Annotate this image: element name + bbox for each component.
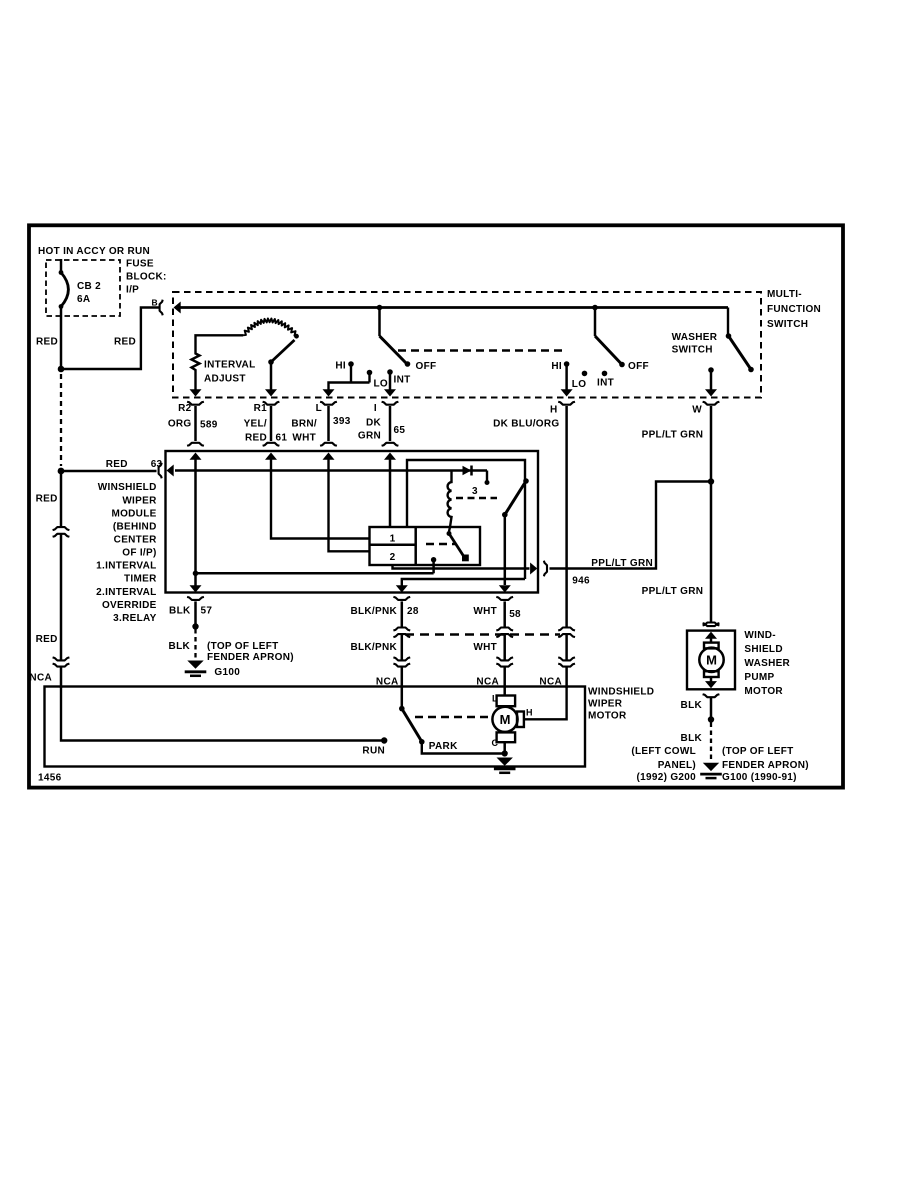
splice node BLK bbox=[192, 623, 198, 629]
wire BLK washer pump bbox=[710, 698, 713, 717]
wire R2 output arrow bbox=[190, 389, 202, 396]
svg-text:PUMP: PUMP bbox=[744, 672, 774, 683]
svg-text:WIPER: WIPER bbox=[122, 495, 157, 506]
wire BLK/PNK 28 segment bbox=[401, 601, 404, 627]
wire break symbol RED bbox=[53, 527, 70, 530]
svg-text:1: 1 bbox=[390, 534, 396, 545]
node on bus for wiper switch pole 1 bbox=[377, 305, 383, 311]
svg-text:DK BLU/ORG: DK BLU/ORG bbox=[493, 419, 559, 430]
svg-text:FUSE: FUSE bbox=[126, 259, 154, 270]
wire WHT into motor box bbox=[503, 667, 506, 688]
wire 946 output internal bbox=[393, 564, 530, 569]
park switch blade bbox=[402, 709, 421, 740]
node RED 63 junction bbox=[58, 468, 65, 475]
svg-text:WINDSHIELD: WINDSHIELD bbox=[588, 687, 654, 698]
svg-text:R1: R1 bbox=[254, 403, 268, 414]
ground G100 left bbox=[187, 661, 203, 669]
connector NCA BLK/PNK at motor bbox=[393, 657, 410, 660]
wire R1 internal to timer pin bbox=[271, 455, 370, 539]
svg-text:WIPER: WIPER bbox=[588, 699, 623, 710]
contact INT pole 1 bbox=[387, 369, 393, 375]
connector RED 63 at module bbox=[159, 463, 162, 479]
ground at wiper motor bbox=[497, 758, 513, 766]
svg-text:3: 3 bbox=[472, 486, 478, 497]
wire BLK dashed to grounds bbox=[710, 723, 712, 762]
inline connector washer pump bbox=[703, 623, 720, 626]
wire R2 return bus internal bbox=[193, 571, 199, 577]
node washer feed junction bbox=[708, 478, 714, 484]
contact HI pole 2 bbox=[564, 361, 570, 367]
connector BLK 57 below module bbox=[187, 597, 204, 600]
rheostat element interval adjust bbox=[243, 319, 298, 337]
svg-text:(1992) G200: (1992) G200 bbox=[637, 772, 697, 783]
wire DK BLU/ORG lower segment bbox=[565, 634, 568, 661]
timer contact dashed link bbox=[426, 543, 455, 545]
wire RED 63 to module bbox=[61, 470, 157, 473]
ground G100 G200 at washer pump bbox=[703, 763, 719, 771]
svg-text:L: L bbox=[316, 403, 322, 414]
svg-text:28: 28 bbox=[407, 606, 419, 617]
timer switch blade bbox=[447, 531, 469, 561]
washer switch feed wire bbox=[727, 308, 729, 335]
contact LO pole 2 bbox=[582, 371, 588, 377]
wire DK GRN 65 circuit I bbox=[389, 406, 392, 441]
wire WHT lower segment bbox=[503, 634, 506, 661]
wire RED to NCA connector bbox=[60, 533, 63, 661]
svg-text:SHIELD: SHIELD bbox=[744, 644, 782, 655]
relay mechanical link dashed bbox=[456, 497, 497, 499]
wire relay contact to BLK/PNK output bbox=[402, 579, 525, 586]
svg-text:G100 (1990-91): G100 (1990-91) bbox=[722, 772, 797, 783]
inline connector BLK/PNK at C100 bbox=[393, 628, 410, 631]
connector NCA H at motor bbox=[558, 657, 575, 660]
svg-text:RED: RED bbox=[36, 337, 58, 348]
park switch pivot wire bbox=[401, 687, 404, 709]
svg-text:BLK: BLK bbox=[169, 641, 191, 652]
inline connector WHT at C100 bbox=[496, 628, 513, 631]
wire BLK/PNK into motor box bbox=[401, 667, 404, 688]
svg-text:(TOP OF LEFT: (TOP OF LEFT bbox=[722, 746, 794, 757]
contact W washer switch bbox=[708, 367, 714, 373]
svg-text:B: B bbox=[152, 298, 158, 308]
svg-text:WHT: WHT bbox=[473, 606, 497, 617]
svg-text:BLK: BLK bbox=[169, 606, 191, 617]
wire INT contact to I output bbox=[389, 372, 392, 390]
wire WHT internal from relay common bbox=[504, 515, 507, 585]
windshield wiper motor box bbox=[45, 687, 586, 767]
connector L at module bbox=[320, 443, 337, 446]
svg-text:CENTER: CENTER bbox=[114, 534, 157, 545]
timer contact node to R2 return bbox=[431, 557, 436, 562]
svg-text:1.INTERVAL: 1.INTERVAL bbox=[96, 561, 156, 572]
svg-text:BLOCK:: BLOCK: bbox=[126, 272, 167, 283]
svg-text:HI: HI bbox=[335, 361, 346, 372]
svg-text:RUN: RUN bbox=[362, 746, 385, 757]
svg-text:OFF: OFF bbox=[628, 361, 649, 372]
diode in module bbox=[463, 466, 472, 476]
wiper motor M armature bbox=[492, 687, 524, 743]
multi-function switch dashed box bbox=[173, 292, 761, 398]
svg-text:FENDER APRON): FENDER APRON) bbox=[722, 760, 809, 771]
svg-text:FENDER APRON): FENDER APRON) bbox=[207, 652, 294, 663]
connector BLK/PNK 28 below module bbox=[393, 597, 410, 600]
svg-text:BRN/: BRN/ bbox=[291, 419, 317, 430]
connector WHT 58 below module bbox=[496, 597, 513, 600]
module input arrow R2 bbox=[190, 453, 202, 460]
svg-text:SWITCH: SWITCH bbox=[672, 345, 713, 356]
rheostat wiper arm bbox=[271, 340, 295, 362]
svg-text:ADJUST: ADJUST bbox=[204, 374, 246, 385]
module output arrow BLK bbox=[194, 573, 197, 586]
wire RED dashed from junction bbox=[60, 374, 62, 466]
park mechanical link dashed bbox=[415, 716, 492, 718]
wire WHT 58 segment bbox=[503, 601, 506, 627]
svg-text:LO: LO bbox=[572, 379, 587, 390]
connector I at module bbox=[382, 443, 399, 446]
wire YEL/RED 61 circuit R1 bbox=[270, 406, 273, 441]
svg-text:RED: RED bbox=[36, 494, 58, 505]
wire RUN inside motor bbox=[61, 687, 382, 741]
svg-text:W: W bbox=[692, 405, 702, 416]
circuit breaker CB2 6A bbox=[59, 259, 69, 369]
svg-text:(BEHIND: (BEHIND bbox=[113, 521, 157, 532]
wire BLK dashed to G100 bbox=[194, 629, 196, 660]
feed bus wire inside multi-function switch bbox=[175, 306, 728, 309]
svg-text:BLK: BLK bbox=[681, 700, 703, 711]
svg-text:INT: INT bbox=[597, 378, 614, 389]
svg-text:1456: 1456 bbox=[38, 773, 62, 784]
svg-text:FUNCTION: FUNCTION bbox=[767, 304, 821, 315]
label WINSHIELD WIPER MODULE notes bbox=[96, 482, 157, 624]
svg-text:WINSHIELD: WINSHIELD bbox=[98, 482, 157, 493]
svg-text:HOT IN ACCY OR RUN: HOT IN ACCY OR RUN bbox=[38, 246, 150, 257]
connector NCA WHT at motor bbox=[496, 657, 513, 660]
wire HI-LO contacts to L output bbox=[329, 364, 370, 390]
svg-text:57: 57 bbox=[201, 606, 213, 617]
svg-text:TIMER: TIMER bbox=[124, 574, 157, 585]
svg-text:RED: RED bbox=[106, 459, 128, 470]
svg-text:ORG: ORG bbox=[168, 419, 192, 430]
svg-text:BLK/PNK: BLK/PNK bbox=[350, 606, 397, 617]
svg-text:LO: LO bbox=[374, 379, 389, 390]
connector below washer pump bbox=[703, 694, 720, 697]
svg-text:58: 58 bbox=[509, 609, 521, 620]
wire ORG 589 circuit R2 bbox=[194, 406, 197, 441]
connector NCA left at motor bbox=[53, 657, 70, 660]
relay armature blade bbox=[505, 481, 526, 515]
wire H into motor box bbox=[565, 667, 568, 688]
svg-text:I/P: I/P bbox=[126, 285, 139, 296]
connector R2 at switch bbox=[187, 402, 204, 405]
wiper switch pole 2 pivot wire bbox=[594, 308, 597, 337]
svg-text:NCA: NCA bbox=[29, 673, 52, 684]
switch blade pole 1 in OFF position bbox=[380, 336, 407, 363]
connector R1 at switch bbox=[263, 402, 280, 405]
relay fixed contact from diode bbox=[486, 471, 488, 482]
connector H at switch bbox=[558, 402, 575, 405]
wire L internal to timer pin bbox=[329, 455, 370, 551]
svg-text:INTERVAL: INTERVAL bbox=[204, 360, 255, 371]
inline connector body dashed C100 bbox=[405, 633, 560, 635]
svg-text:PPL/LT GRN: PPL/LT GRN bbox=[642, 586, 704, 597]
wire park contact to motor common bbox=[422, 742, 505, 754]
svg-text:2: 2 bbox=[390, 552, 396, 563]
svg-text:SWITCH: SWITCH bbox=[767, 319, 808, 330]
windshield wiper module box bbox=[166, 451, 539, 593]
svg-text:589: 589 bbox=[200, 420, 218, 431]
wire R1 output inside switch bbox=[270, 362, 273, 390]
svg-text:HI: HI bbox=[551, 361, 562, 372]
svg-text:WASHER: WASHER bbox=[744, 658, 790, 669]
wire R2 internal to ground-out bbox=[194, 455, 197, 573]
wire motor H to DK BLU/ORG bbox=[524, 687, 567, 720]
wire I internal to timer top bbox=[389, 455, 392, 527]
svg-text:PPL/LT GRN: PPL/LT GRN bbox=[642, 429, 704, 440]
wire BLK 57 to ground bbox=[194, 601, 197, 624]
svg-text:WASHER: WASHER bbox=[672, 332, 718, 343]
connector I at switch bbox=[382, 402, 399, 405]
svg-text:C: C bbox=[492, 738, 499, 748]
svg-text:L: L bbox=[492, 694, 498, 704]
svg-text:H: H bbox=[550, 404, 558, 415]
svg-text:INT: INT bbox=[394, 375, 411, 386]
svg-text:RED: RED bbox=[114, 337, 136, 348]
switch blade pole 2 in OFF position bbox=[595, 336, 621, 363]
contact OFF pole 2 bbox=[619, 362, 625, 368]
mechanical link dashed between wiper poles bbox=[398, 349, 562, 351]
diagram border frame bbox=[29, 225, 843, 787]
svg-text:G100: G100 bbox=[214, 667, 240, 678]
washer pump M armature bbox=[699, 632, 723, 689]
svg-text:OF I/P): OF I/P) bbox=[122, 548, 156, 559]
resistor interval adjust fixed bbox=[192, 335, 244, 390]
svg-text:3.RELAY: 3.RELAY bbox=[113, 613, 156, 624]
svg-text:393: 393 bbox=[333, 416, 351, 427]
module input arrow R1 bbox=[265, 453, 277, 460]
contact OFF pole 1 bbox=[405, 361, 411, 367]
svg-text:WIND-: WIND- bbox=[744, 630, 776, 641]
svg-text:RED: RED bbox=[36, 634, 58, 645]
node on bus for wiper switch pole 2 bbox=[592, 305, 598, 311]
relay 3 inner frame bbox=[407, 460, 525, 579]
connector at B input of multi-function switch bbox=[160, 300, 163, 316]
junction node on RED wire bbox=[58, 366, 65, 373]
connector W at switch bbox=[703, 402, 720, 405]
svg-text:WHT: WHT bbox=[292, 433, 316, 444]
wire HI contact to H output bbox=[565, 364, 568, 390]
svg-text:YEL/: YEL/ bbox=[244, 419, 267, 430]
wire W contact to output bbox=[710, 370, 713, 390]
svg-text:2.INTERVAL: 2.INTERVAL bbox=[96, 587, 156, 598]
wire PPL/LT GRN 946 bbox=[550, 482, 712, 569]
svg-text:M: M bbox=[500, 712, 511, 727]
splice node washer BLK bbox=[708, 716, 714, 722]
contact LO pole 1 bbox=[367, 370, 373, 376]
svg-text:6A: 6A bbox=[77, 294, 90, 305]
wire RED lower left bbox=[60, 471, 63, 526]
svg-text:I: I bbox=[374, 403, 377, 414]
svg-text:PANEL): PANEL) bbox=[658, 760, 696, 771]
windshield washer pump motor box bbox=[687, 631, 735, 690]
connector R1 at module bbox=[263, 443, 280, 446]
svg-text:GRN: GRN bbox=[358, 431, 381, 442]
fuse block dashed box bbox=[46, 260, 120, 316]
contact INT pole 2 bbox=[602, 371, 608, 377]
svg-text:MOTOR: MOTOR bbox=[744, 686, 783, 697]
svg-text:BLK/PNK: BLK/PNK bbox=[350, 642, 397, 653]
svg-text:DK: DK bbox=[366, 418, 382, 429]
wire module feed bus internal bbox=[175, 469, 487, 472]
wiper switch pole 1 pivot wire bbox=[378, 308, 381, 337]
svg-text:OVERRIDE: OVERRIDE bbox=[102, 600, 157, 611]
connector L at switch bbox=[320, 402, 337, 405]
svg-text:BLK: BLK bbox=[681, 733, 703, 744]
svg-text:MOTOR: MOTOR bbox=[588, 711, 627, 722]
svg-text:RED: RED bbox=[245, 433, 267, 444]
inline connector H at C100 bbox=[558, 628, 575, 631]
svg-text:R2: R2 bbox=[178, 403, 192, 414]
washer switch blade open bbox=[729, 336, 751, 368]
wire BLK/PNK lower segment bbox=[401, 634, 404, 661]
svg-text:M: M bbox=[706, 653, 717, 668]
svg-text:MULTI-: MULTI- bbox=[767, 289, 802, 300]
svg-text:CB 2: CB 2 bbox=[77, 281, 101, 292]
module input arrow L bbox=[323, 453, 335, 460]
svg-text:PPL/LT GRN: PPL/LT GRN bbox=[591, 558, 653, 569]
contact HI pole 1 bbox=[348, 361, 354, 367]
connector R2 at module bbox=[187, 443, 204, 446]
svg-text:946: 946 bbox=[572, 576, 590, 587]
svg-text:OFF: OFF bbox=[416, 361, 437, 372]
wire motor common to ground bbox=[503, 742, 506, 753]
svg-text:(LEFT COWL: (LEFT COWL bbox=[631, 746, 696, 757]
module input arrow I bbox=[384, 453, 396, 460]
wire BRN/WHT 393 circuit L bbox=[327, 406, 330, 441]
relay coil bbox=[448, 471, 452, 532]
svg-text:MODULE: MODULE bbox=[111, 508, 156, 519]
svg-text:PARK: PARK bbox=[429, 741, 458, 752]
svg-text:H: H bbox=[526, 707, 533, 717]
svg-text:WHT: WHT bbox=[473, 642, 497, 653]
wire RED junction to B connector bbox=[61, 308, 159, 370]
svg-text:61: 61 bbox=[276, 433, 288, 444]
connector 946 output at module bbox=[544, 561, 547, 577]
wire NCA into motor box bbox=[60, 667, 63, 688]
interval timer box 1 2 bbox=[370, 527, 481, 565]
svg-text:65: 65 bbox=[394, 425, 406, 436]
svg-text:(TOP OF LEFT: (TOP OF LEFT bbox=[207, 641, 279, 652]
